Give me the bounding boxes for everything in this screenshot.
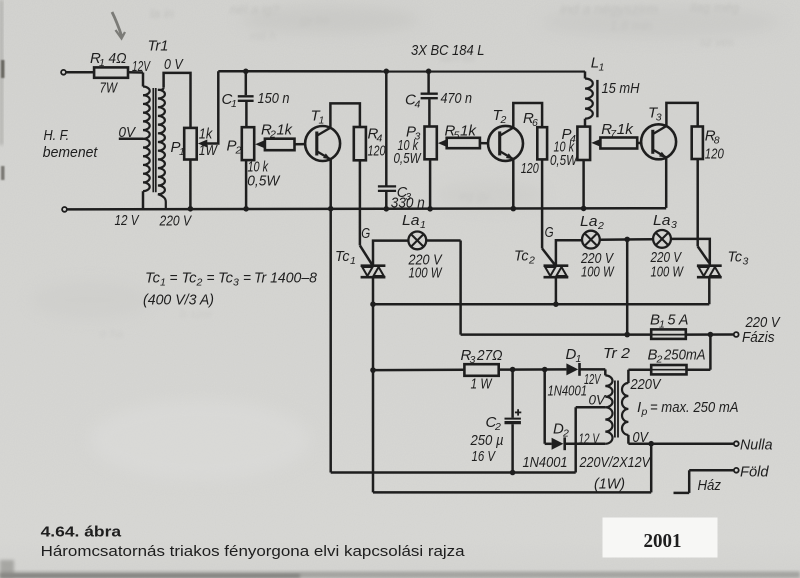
svg-text:330 n: 330 n bbox=[391, 196, 425, 212]
svg-text:1: 1 bbox=[659, 319, 665, 331]
svg-text:H. F.: H. F. bbox=[44, 127, 70, 144]
svg-text:1: 1 bbox=[179, 146, 185, 158]
svg-text:mit h: mit h bbox=[250, 29, 276, 43]
svg-text:0 V: 0 V bbox=[164, 56, 184, 73]
svg-text:2: 2 bbox=[562, 428, 569, 440]
svg-text:1N4001: 1N4001 bbox=[548, 384, 588, 400]
svg-text:220V/2X12V: 220V/2X12V bbox=[579, 454, 652, 471]
svg-text:2: 2 bbox=[656, 354, 663, 366]
svg-text:Fázis: Fázis bbox=[742, 329, 775, 346]
svg-text:100 W: 100 W bbox=[651, 263, 685, 280]
svg-text:1 W: 1 W bbox=[471, 376, 493, 393]
svg-text:0V: 0V bbox=[589, 392, 607, 408]
svg-text:220V: 220V bbox=[630, 377, 662, 393]
svg-text:2: 2 bbox=[269, 129, 276, 141]
svg-text:120: 120 bbox=[368, 144, 386, 160]
svg-text:1: 1 bbox=[350, 255, 356, 267]
svg-text:0V: 0V bbox=[633, 429, 650, 446]
svg-text:5 A: 5 A bbox=[668, 312, 689, 329]
svg-text:p: p bbox=[641, 406, 648, 418]
svg-text:1: 1 bbox=[160, 277, 166, 289]
svg-text:bemenet: bemenet bbox=[43, 144, 98, 161]
svg-text:12V: 12V bbox=[584, 372, 601, 388]
svg-text:b szer: b szer bbox=[180, 307, 214, 321]
svg-text:3: 3 bbox=[470, 354, 476, 366]
svg-text:0,5W: 0,5W bbox=[550, 152, 578, 169]
svg-text:4: 4 bbox=[415, 99, 421, 111]
svg-text:12 V: 12 V bbox=[579, 432, 600, 448]
svg-text:3: 3 bbox=[656, 112, 662, 124]
svg-text:2: 2 bbox=[500, 114, 507, 126]
svg-text:e ha: e ha bbox=[100, 327, 124, 341]
svg-text:2001: 2001 bbox=[644, 530, 682, 552]
svg-text:(1W): (1W) bbox=[594, 476, 625, 493]
svg-text:G: G bbox=[545, 224, 554, 241]
svg-text:3: 3 bbox=[233, 277, 239, 289]
svg-text:=: = bbox=[243, 269, 251, 286]
svg-text:0,5W: 0,5W bbox=[394, 150, 422, 167]
svg-text:Tr 2: Tr 2 bbox=[603, 345, 631, 362]
svg-text:sz ves: sz ves bbox=[700, 35, 734, 49]
svg-text:6: 6 bbox=[532, 117, 538, 129]
svg-text:27Ω: 27Ω bbox=[476, 347, 502, 364]
svg-text:16 V: 16 V bbox=[472, 448, 497, 465]
svg-text:Tc: Tc bbox=[335, 248, 350, 265]
svg-text:(400 V/3 A): (400 V/3 A) bbox=[143, 292, 214, 309]
svg-text:250 µ: 250 µ bbox=[470, 432, 504, 449]
svg-text:4.64. ábra: 4.64. ábra bbox=[41, 525, 123, 541]
svg-text:la in: la in bbox=[150, 6, 174, 21]
svg-text:Nulla: Nulla bbox=[740, 437, 773, 454]
svg-text:1k: 1k bbox=[199, 126, 214, 143]
svg-text:Tc: Tc bbox=[145, 269, 160, 286]
svg-text:=: = bbox=[170, 269, 178, 286]
svg-text:La: La bbox=[580, 213, 598, 230]
svg-text:12 V: 12 V bbox=[115, 212, 141, 229]
svg-text:La: La bbox=[402, 212, 420, 229]
svg-text:3: 3 bbox=[743, 256, 749, 268]
svg-text:Háromcsatornás triakos fényorg: Háromcsatornás triakos fényorgona elvi k… bbox=[41, 544, 466, 560]
svg-text:12V: 12V bbox=[132, 59, 151, 75]
svg-text:La: La bbox=[653, 212, 671, 229]
svg-text:Tc: Tc bbox=[728, 249, 743, 266]
svg-text:Tc: Tc bbox=[182, 269, 197, 286]
svg-text:15 mH: 15 mH bbox=[602, 80, 640, 97]
svg-text:4Ω: 4Ω bbox=[109, 50, 127, 67]
svg-text:Tr1: Tr1 bbox=[148, 38, 169, 55]
svg-text:Tc: Tc bbox=[514, 248, 529, 265]
svg-text:150 n: 150 n bbox=[258, 90, 290, 107]
svg-text:2: 2 bbox=[196, 277, 203, 289]
svg-text:250mA: 250mA bbox=[663, 347, 705, 364]
svg-text:3X BC 184 L: 3X BC 184 L bbox=[411, 42, 485, 59]
svg-text:1W: 1W bbox=[199, 142, 218, 159]
svg-text:1: 1 bbox=[231, 98, 237, 110]
svg-text:1: 1 bbox=[576, 353, 582, 365]
svg-text:8: 8 bbox=[714, 135, 720, 147]
svg-text:120: 120 bbox=[521, 161, 539, 177]
svg-text:G: G bbox=[361, 225, 370, 242]
svg-text:0V: 0V bbox=[119, 124, 137, 141]
svg-text:Föld: Föld bbox=[740, 464, 769, 481]
svg-text:3: 3 bbox=[671, 219, 677, 231]
svg-text:7W: 7W bbox=[100, 80, 119, 97]
svg-text:2: 2 bbox=[597, 220, 604, 232]
svg-text:Tr 1400–8: Tr 1400–8 bbox=[254, 269, 318, 286]
svg-text:0,5W: 0,5W bbox=[247, 173, 281, 190]
svg-text:1N4001: 1N4001 bbox=[523, 455, 568, 471]
svg-text:100 W: 100 W bbox=[409, 264, 443, 281]
svg-text:120: 120 bbox=[705, 147, 724, 163]
svg-text:100 W: 100 W bbox=[581, 263, 615, 280]
svg-text:Tc: Tc bbox=[218, 269, 233, 286]
svg-text:1: 1 bbox=[99, 57, 105, 69]
svg-text:470 n: 470 n bbox=[441, 90, 473, 107]
svg-text:2: 2 bbox=[528, 255, 535, 267]
svg-text:220 V: 220 V bbox=[159, 213, 193, 230]
svg-text:1: 1 bbox=[599, 62, 605, 74]
svg-text:= max. 250 mA: = max. 250 mA bbox=[650, 399, 739, 416]
svg-text:1: 1 bbox=[420, 219, 426, 231]
svg-text:1k: 1k bbox=[617, 121, 635, 138]
svg-text:1k: 1k bbox=[460, 123, 478, 140]
svg-text:Ház: Ház bbox=[698, 477, 722, 494]
svg-text:5: 5 bbox=[454, 130, 460, 142]
svg-text:2: 2 bbox=[235, 145, 242, 157]
svg-text:1: 1 bbox=[319, 115, 325, 127]
svg-text:=: = bbox=[207, 269, 215, 286]
svg-text:1k: 1k bbox=[277, 122, 294, 139]
